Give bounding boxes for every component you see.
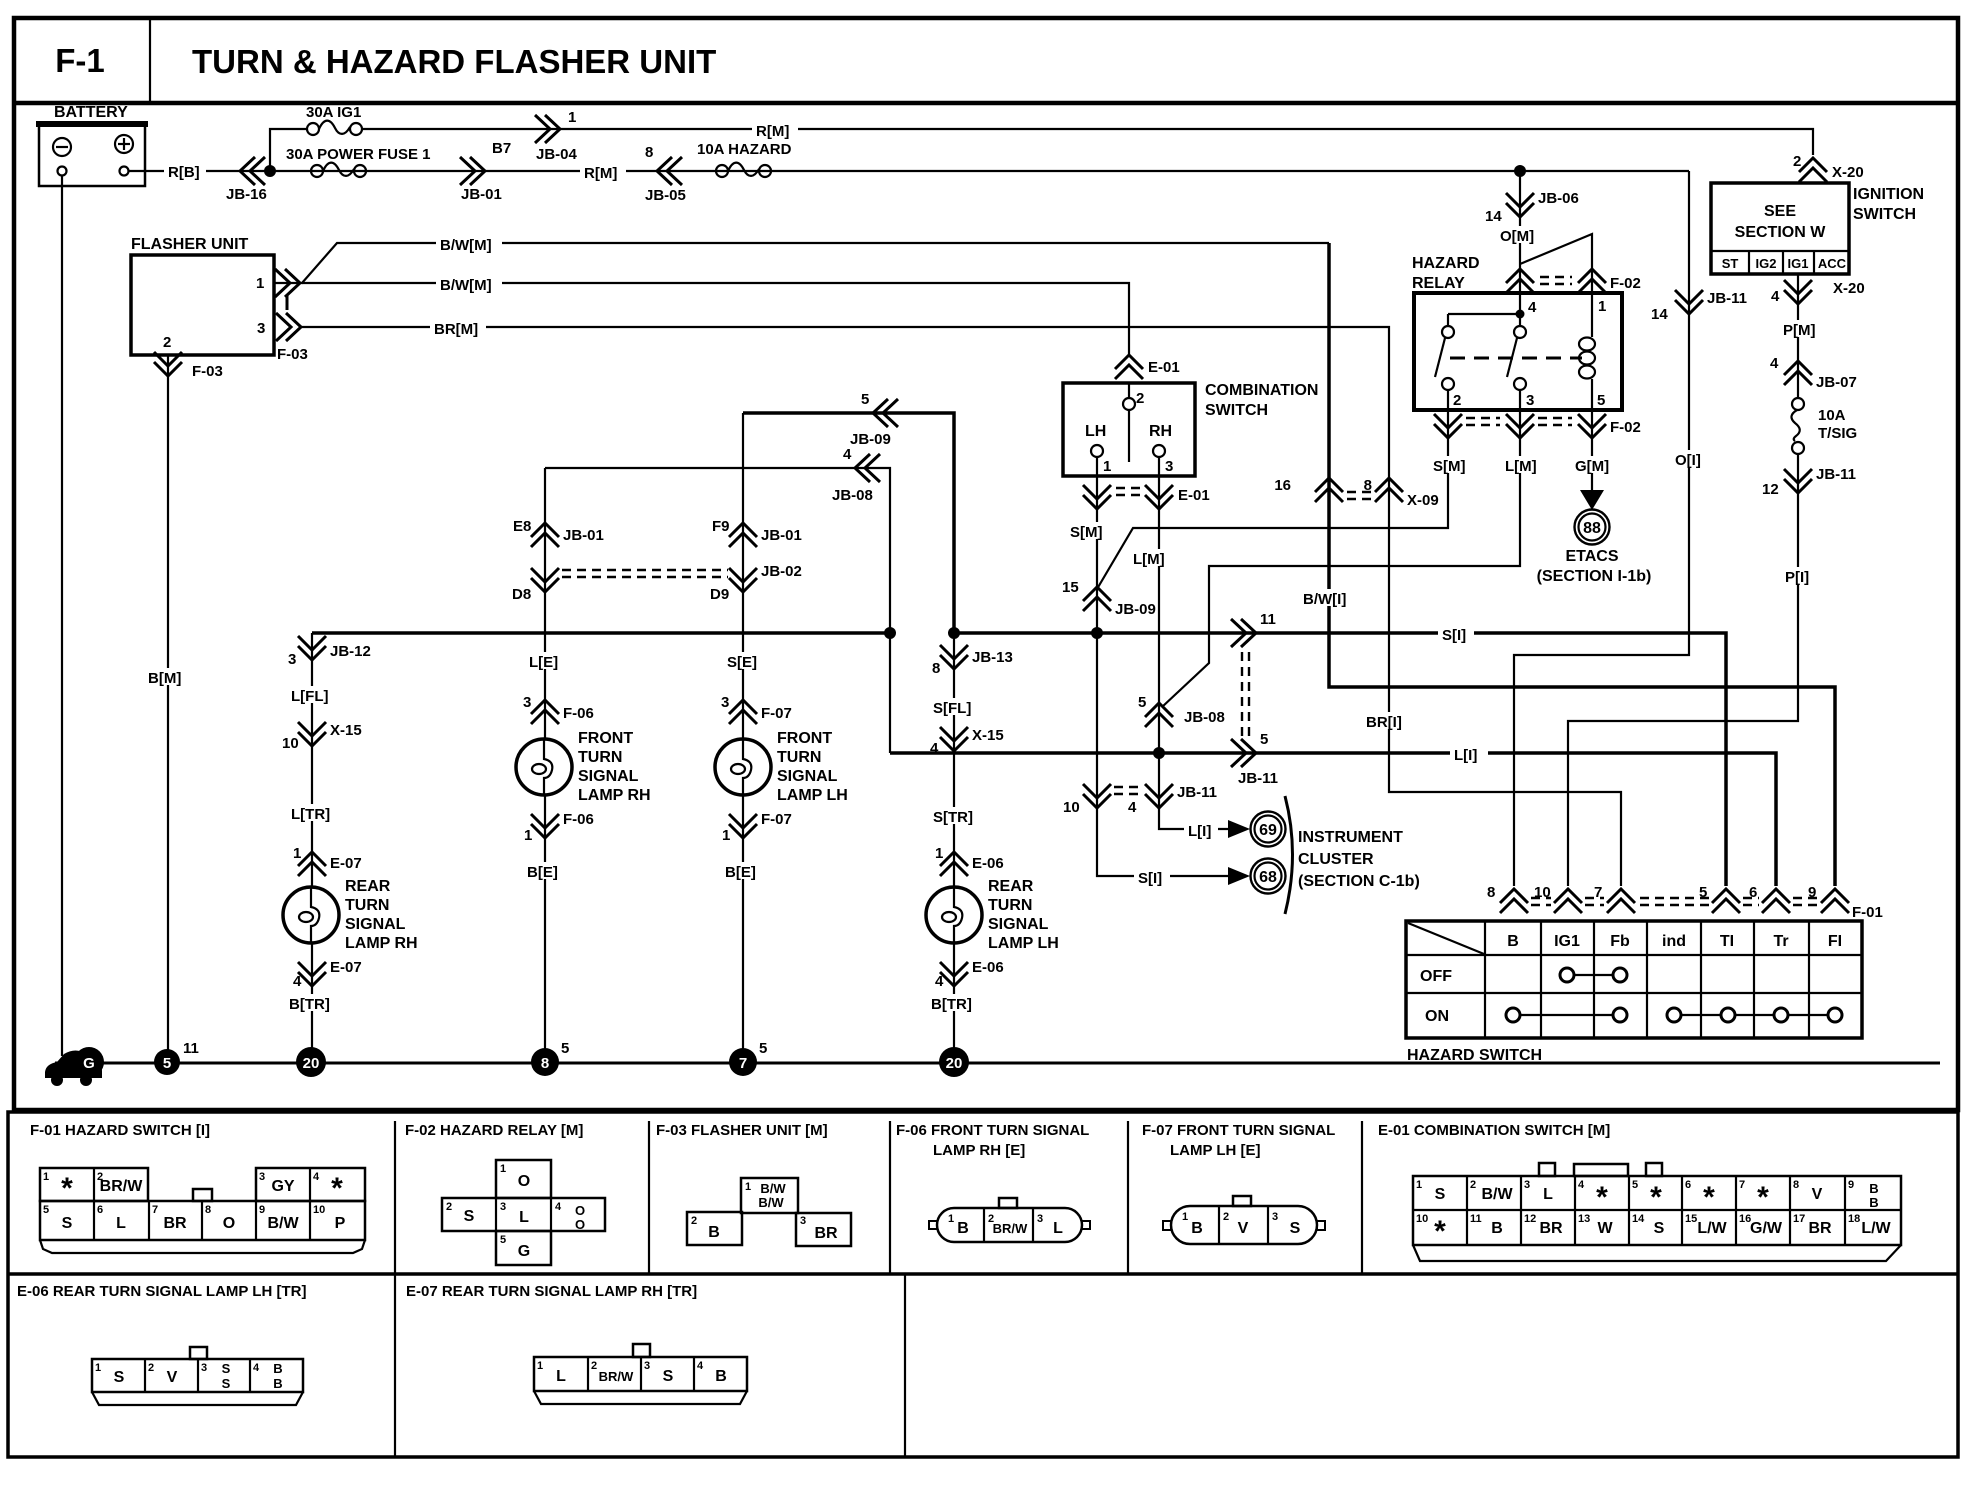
svg-text:L[I]: L[I] bbox=[1454, 747, 1477, 764]
label L[I] on L line bbox=[1450, 745, 1488, 764]
svg-text:S[I]: S[I] bbox=[1442, 627, 1466, 644]
connector F-01 pin 8 (up arrow) bbox=[1487, 884, 1528, 913]
connector JB-02 pin D9 (down arrow) bbox=[710, 563, 802, 603]
svg-text:69: 69 bbox=[1259, 822, 1277, 839]
svg-text:BATTERY: BATTERY bbox=[54, 104, 128, 121]
svg-text:B/W[M]: B/W[M] bbox=[440, 237, 492, 254]
svg-text:6: 6 bbox=[1685, 1179, 1691, 1191]
label B/W[M] upper bbox=[436, 235, 502, 254]
svg-text:F-02: F-02 bbox=[1610, 419, 1641, 436]
svg-text:E-07 REAR TURN SIGNAL LAMP RH: E-07 REAR TURN SIGNAL LAMP RH [TR] bbox=[406, 1283, 697, 1300]
svg-text:B/W: B/W bbox=[758, 1195, 784, 1210]
wire O[M] drop to relay pin 4 bbox=[1519, 171, 1521, 293]
svg-text:O: O bbox=[518, 1173, 530, 1190]
svg-text:*: * bbox=[1703, 1181, 1715, 1214]
node O[M] junction on power line bbox=[1514, 165, 1526, 177]
svg-text:10A HAZARD: 10A HAZARD bbox=[697, 141, 792, 158]
wire dashes between F-02 top arrows bbox=[1540, 277, 1572, 284]
svg-text:TURN: TURN bbox=[988, 897, 1032, 914]
svg-text:11: 11 bbox=[1260, 611, 1276, 628]
svg-text:S: S bbox=[222, 1361, 231, 1376]
wire lower power line to hazard fuse and right bbox=[270, 170, 1689, 172]
svg-text:TURN & HAZARD FLASHER UNIT: TURN & HAZARD FLASHER UNIT bbox=[192, 43, 716, 80]
svg-text:B7: B7 bbox=[492, 140, 511, 157]
connector E-01 pin 2 (up arrow above combination switch) bbox=[1115, 355, 1180, 379]
svg-text:G[M]: G[M] bbox=[1575, 458, 1609, 475]
title TURN & HAZARD FLASHER UNIT bbox=[192, 43, 716, 80]
connector JB-13 pin 8 (down arrow) bbox=[932, 645, 1013, 677]
svg-text:JB-08: JB-08 bbox=[832, 487, 873, 504]
svg-text:(SECTION C-1b): (SECTION C-1b) bbox=[1298, 873, 1420, 890]
wire R[M] top line from fuse to ignition switch bbox=[362, 129, 1813, 155]
connector X-09 pin 16 (up arrow) bbox=[1274, 477, 1343, 502]
wire G[M] from relay pin 5 to ETACS bbox=[1591, 410, 1593, 494]
svg-text:F-03 FLASHER UNIT [M]: F-03 FLASHER UNIT [M] bbox=[656, 1122, 828, 1139]
connector JB-11 pin 14 (down arrow on O[I]) bbox=[1651, 290, 1747, 323]
svg-text:1: 1 bbox=[43, 1171, 49, 1183]
svg-text:4: 4 bbox=[1770, 355, 1779, 372]
label G[M] bbox=[1572, 456, 1620, 475]
svg-text:R[B]: R[B] bbox=[168, 164, 200, 181]
svg-text:1: 1 bbox=[95, 1362, 101, 1374]
fuse 10A HAZARD bbox=[697, 141, 792, 177]
svg-text:E-06: E-06 bbox=[972, 959, 1004, 976]
svg-text:E-01: E-01 bbox=[1178, 487, 1210, 504]
connector F-01 pin 5 (up arrow) bbox=[1699, 884, 1740, 913]
ground car icon bbox=[45, 1051, 102, 1087]
svg-text:5: 5 bbox=[861, 391, 869, 408]
connector F-03 pin 1 (right arrow at flasher) bbox=[275, 269, 300, 310]
svg-text:2: 2 bbox=[1223, 1211, 1229, 1223]
svg-text:8: 8 bbox=[1487, 884, 1495, 901]
svg-text:4: 4 bbox=[843, 446, 852, 463]
svg-text:SIGNAL: SIGNAL bbox=[578, 768, 639, 785]
svg-text:S[E]: S[E] bbox=[727, 654, 757, 671]
svg-text:5: 5 bbox=[1260, 731, 1268, 748]
connector JB-02 pin D8 (down arrow) bbox=[512, 568, 559, 603]
lamp front turn signal LH (bulb) bbox=[715, 730, 848, 804]
svg-text:B: B bbox=[715, 1368, 727, 1385]
connector F-06 pin 1 (down arrow) bbox=[524, 811, 594, 844]
wire ground bus bbox=[55, 1062, 1940, 1065]
label L[E] bbox=[526, 652, 566, 671]
svg-text:ind: ind bbox=[1662, 933, 1686, 950]
svg-text:1: 1 bbox=[722, 827, 730, 844]
svg-text:R[M]: R[M] bbox=[584, 165, 617, 182]
svg-text:L[I]: L[I] bbox=[1188, 823, 1211, 840]
connector JB-01 pin E8 (up arrow) bbox=[513, 518, 604, 547]
svg-text:LAMP RH [E]: LAMP RH [E] bbox=[933, 1142, 1025, 1159]
svg-text:L: L bbox=[519, 1209, 529, 1226]
lamp front turn signal RH (bulb) bbox=[516, 730, 651, 804]
connector JB-08 pin 4 (left arrow) bbox=[832, 446, 880, 504]
connector F-02 pin 4 (up arrow above relay) bbox=[1506, 269, 1534, 293]
svg-text:*: * bbox=[61, 1172, 73, 1205]
ground node 8 pin 5 bbox=[531, 1040, 569, 1076]
connector JB-11 pin 12 (down arrow) bbox=[1762, 466, 1856, 498]
svg-text:JB-11: JB-11 bbox=[1177, 784, 1217, 801]
svg-text:S: S bbox=[62, 1215, 73, 1232]
label B[E] left bbox=[524, 862, 566, 881]
svg-text:JB-01: JB-01 bbox=[563, 527, 604, 544]
svg-text:10: 10 bbox=[1416, 1213, 1428, 1225]
svg-text:4: 4 bbox=[1771, 288, 1780, 305]
connector JB-05 pin 8 (left arrow) bbox=[645, 144, 686, 204]
svg-text:2: 2 bbox=[591, 1360, 597, 1372]
svg-text:T/SIG: T/SIG bbox=[1818, 425, 1857, 442]
svg-text:Fb: Fb bbox=[1610, 933, 1630, 950]
svg-text:V: V bbox=[1812, 1186, 1823, 1203]
svg-text:1: 1 bbox=[1416, 1179, 1422, 1191]
svg-text:F-06: F-06 bbox=[563, 811, 594, 828]
svg-text:BR: BR bbox=[163, 1215, 187, 1232]
label O[M] bbox=[1497, 226, 1544, 245]
wire JB-09 S line (S[E] top run) bbox=[743, 413, 954, 633]
connector F-07 drawing bbox=[1163, 1196, 1325, 1244]
svg-text:LH: LH bbox=[1085, 423, 1106, 440]
connector JB-08 pin 5 (diagonal arrow on L[M] wire) bbox=[1138, 694, 1225, 727]
connector JB-11 pin 4 (down arrow on L[M] wire) bbox=[1128, 784, 1217, 816]
svg-text:GY: GY bbox=[271, 1178, 294, 1195]
connector E-06 drawing bbox=[92, 1347, 303, 1405]
connector JB-07 pin 4 (up arrow) bbox=[1770, 355, 1857, 391]
svg-text:S[M]: S[M] bbox=[1433, 458, 1466, 475]
svg-text:1: 1 bbox=[745, 1181, 751, 1193]
svg-text:4: 4 bbox=[1578, 1179, 1585, 1191]
label BR[M] bbox=[430, 319, 486, 338]
connector F-06 pin 3 (up arrow) bbox=[523, 694, 594, 724]
svg-text:1: 1 bbox=[1103, 458, 1111, 475]
svg-text:F-01: F-01 bbox=[1852, 904, 1883, 921]
label O[I] bbox=[1672, 450, 1708, 469]
svg-text:BR[M]: BR[M] bbox=[434, 321, 478, 338]
svg-text:LAMP LH [E]: LAMP LH [E] bbox=[1170, 1142, 1261, 1159]
svg-text:JB-11: JB-11 bbox=[1238, 770, 1278, 787]
connector F-03 pin 3 (right arrow at flasher) bbox=[276, 313, 308, 363]
svg-text:REAR: REAR bbox=[988, 878, 1034, 895]
connector F-03 drawing bbox=[687, 1178, 851, 1246]
svg-text:BR: BR bbox=[1539, 1220, 1563, 1237]
svg-text:L: L bbox=[1053, 1220, 1063, 1237]
svg-text:Tr: Tr bbox=[1773, 933, 1788, 950]
svg-text:E8: E8 bbox=[513, 518, 531, 535]
connector JB-11 pin 11 (right arrow on S line) bbox=[1231, 611, 1276, 647]
hazard switch label bbox=[1407, 1047, 1542, 1064]
wire B/W[I] drop and run to hazard switch pin 9 bbox=[1329, 243, 1835, 886]
svg-text:E-01 COMBINATION SWITCH [M]: E-01 COMBINATION SWITCH [M] bbox=[1378, 1122, 1610, 1139]
svg-text:20: 20 bbox=[303, 1055, 320, 1072]
svg-text:S[M]: S[M] bbox=[1070, 524, 1103, 541]
svg-text:V: V bbox=[1238, 1220, 1249, 1237]
svg-text:D9: D9 bbox=[710, 586, 729, 603]
svg-text:FRONT: FRONT bbox=[578, 730, 633, 747]
connector JB-12 pin 3 (down arrow) bbox=[288, 636, 371, 668]
svg-text:X-20: X-20 bbox=[1833, 280, 1865, 297]
svg-text:BR: BR bbox=[814, 1225, 838, 1242]
svg-text:10: 10 bbox=[1063, 799, 1080, 816]
svg-text:B: B bbox=[1869, 1181, 1878, 1196]
instrument cluster bracket and label bbox=[1285, 796, 1420, 914]
wire S horizontal main run bbox=[954, 633, 1726, 886]
svg-text:ACC: ACC bbox=[1818, 256, 1847, 271]
svg-text:2: 2 bbox=[163, 334, 171, 351]
connector F-07 pin 3 (up arrow) bbox=[721, 694, 792, 724]
ground node G bbox=[74, 1047, 104, 1077]
svg-text:13: 13 bbox=[1578, 1213, 1590, 1225]
svg-text:7: 7 bbox=[1739, 1179, 1745, 1191]
svg-text:SWITCH: SWITCH bbox=[1205, 402, 1268, 419]
label B[TR] right bbox=[928, 994, 979, 1013]
fuse 10A T/SIG (vertical) bbox=[1791, 398, 1857, 454]
connector F-01 pin 6 (up arrow) bbox=[1749, 884, 1790, 913]
svg-text:15: 15 bbox=[1062, 579, 1079, 596]
wire O[I] from power line down to hazard switch pin 8 bbox=[1514, 171, 1689, 886]
svg-text:RELAY: RELAY bbox=[1412, 275, 1465, 292]
off-page arrowhead to ETACS bbox=[1580, 490, 1604, 510]
label R[M] lower bbox=[580, 163, 626, 182]
connector F-02 pin 1 (up arrow above relay) bbox=[1578, 269, 1641, 293]
wire L[E] front lamp RH chain bbox=[544, 468, 546, 1050]
svg-text:*: * bbox=[331, 1172, 343, 1205]
svg-text:2: 2 bbox=[1470, 1179, 1476, 1191]
combination switch box bbox=[1063, 382, 1318, 476]
svg-text:HAZARD: HAZARD bbox=[1412, 255, 1480, 272]
svg-text:3: 3 bbox=[523, 694, 531, 711]
svg-text:B: B bbox=[273, 1361, 282, 1376]
ignition switch box bbox=[1711, 183, 1924, 274]
connector JB-09 pin 5 (left arrow) bbox=[850, 391, 898, 448]
wire dashes between F-01 arrows bbox=[1531, 898, 1818, 905]
wire diagonal branch to relay pin 1 bbox=[1520, 234, 1592, 293]
svg-text:X-15: X-15 bbox=[330, 722, 362, 739]
wire B[M] flasher pin 2 to ground node 5 bbox=[167, 355, 169, 1050]
svg-text:1: 1 bbox=[524, 827, 532, 844]
svg-text:6: 6 bbox=[97, 1204, 103, 1216]
svg-text:FI: FI bbox=[1828, 933, 1842, 950]
svg-text:16: 16 bbox=[1274, 477, 1291, 494]
title block F-1 bbox=[55, 42, 105, 79]
connector E-07 pin 1 (up arrow) bbox=[293, 845, 362, 876]
wire P[I] continues down to hazard switch pin 10 bbox=[1568, 454, 1798, 886]
svg-text:SIGNAL: SIGNAL bbox=[988, 916, 1049, 933]
svg-text:L: L bbox=[1543, 1186, 1553, 1203]
svg-text:P: P bbox=[335, 1215, 346, 1232]
svg-text:X-20: X-20 bbox=[1832, 164, 1864, 181]
svg-text:1: 1 bbox=[293, 845, 301, 862]
svg-text:TURN: TURN bbox=[578, 749, 622, 766]
wire L[M] from relay pin 3 to JB-08 diagonal bbox=[1162, 410, 1520, 707]
svg-text:JB-07: JB-07 bbox=[1816, 374, 1857, 391]
svg-text:L: L bbox=[556, 1368, 566, 1385]
node junction L line at x1159 bbox=[1153, 747, 1165, 759]
svg-text:JB-05: JB-05 bbox=[645, 187, 686, 204]
svg-text:88: 88 bbox=[1583, 520, 1601, 537]
svg-text:B: B bbox=[957, 1220, 969, 1237]
svg-text:20: 20 bbox=[946, 1055, 963, 1072]
connector F-02 pin 2 (down arrow below relay) bbox=[1434, 414, 1462, 438]
connector F-07 pin 1 (down arrow) bbox=[722, 811, 792, 844]
svg-text:5: 5 bbox=[1597, 392, 1605, 409]
svg-text:B[E]: B[E] bbox=[527, 864, 558, 881]
ground node 5 pin 11 bbox=[154, 1040, 199, 1075]
svg-text:1: 1 bbox=[537, 1360, 543, 1372]
svg-text:8: 8 bbox=[645, 144, 653, 161]
svg-text:G: G bbox=[518, 1243, 530, 1260]
svg-text:3: 3 bbox=[1272, 1211, 1278, 1223]
svg-text:3: 3 bbox=[721, 694, 729, 711]
svg-text:5: 5 bbox=[759, 1040, 767, 1057]
lamp rear turn signal RH (bulb) bbox=[283, 878, 418, 952]
svg-text:SIGNAL: SIGNAL bbox=[777, 768, 838, 785]
label S[M] combination bbox=[1067, 522, 1115, 541]
svg-text:JB-06: JB-06 bbox=[1538, 190, 1579, 207]
relay internal contacts and coil bbox=[1435, 293, 1595, 410]
hazard relay label bbox=[1412, 255, 1480, 292]
svg-text:7: 7 bbox=[739, 1055, 747, 1072]
connector E-06 pin 4 (down arrow) bbox=[935, 959, 1004, 990]
svg-text:G/W: G/W bbox=[1750, 1220, 1783, 1237]
svg-text:IGNITION: IGNITION bbox=[1853, 186, 1924, 203]
wire dashes between F-02 bottom arrows bbox=[1466, 418, 1572, 425]
label L[M] combination bbox=[1130, 549, 1176, 568]
svg-text:E-07: E-07 bbox=[330, 855, 362, 872]
label R[M] top bbox=[752, 121, 798, 140]
connector JB-04 pin 1 (right arrow) bbox=[535, 109, 578, 163]
wire BR[I] drop and run to hazard switch pin 7 bbox=[1389, 476, 1621, 886]
svg-text:17: 17 bbox=[1793, 1213, 1805, 1225]
node junction S line at x1097 bbox=[1091, 627, 1103, 639]
connector JB-09 pin 15 (up arrow on S[M] wire) bbox=[1062, 579, 1156, 618]
flasher unit box bbox=[131, 236, 274, 355]
svg-text:3: 3 bbox=[257, 320, 265, 337]
connector X-20 pin 2 (up arrow above ignition switch) bbox=[1793, 153, 1864, 182]
svg-text:SIGNAL: SIGNAL bbox=[345, 916, 406, 933]
svg-text:X-15: X-15 bbox=[972, 727, 1004, 744]
label BR[I] bbox=[1363, 712, 1413, 731]
label B/W[I] bbox=[1300, 589, 1358, 608]
svg-text:SECTION W: SECTION W bbox=[1735, 224, 1827, 241]
connector F-01 pin 10 (up arrow) bbox=[1534, 884, 1582, 913]
fuse 30A POWER FUSE 1 bbox=[286, 146, 430, 177]
svg-text:4: 4 bbox=[253, 1362, 260, 1374]
wire P[M] from ignition IG1 down through fuse bbox=[1797, 274, 1799, 398]
svg-text:L[TR]: L[TR] bbox=[291, 806, 330, 823]
svg-text:11: 11 bbox=[1470, 1213, 1482, 1225]
svg-text:JB-08: JB-08 bbox=[1184, 709, 1225, 726]
svg-text:4: 4 bbox=[293, 973, 302, 990]
svg-text:1: 1 bbox=[568, 109, 576, 126]
svg-text:ETACS: ETACS bbox=[1565, 548, 1618, 565]
svg-text:3: 3 bbox=[259, 1171, 265, 1183]
svg-text:10: 10 bbox=[313, 1204, 325, 1216]
svg-text:B: B bbox=[1507, 933, 1519, 950]
lamp rear turn signal LH (bulb) bbox=[926, 878, 1059, 952]
instrument cluster arrow 68 bbox=[1228, 859, 1286, 894]
svg-text:3: 3 bbox=[800, 1215, 806, 1227]
svg-text:1: 1 bbox=[500, 1163, 506, 1175]
hazard switch ON row contacts bbox=[1506, 1008, 1842, 1022]
label S[FL] bbox=[930, 698, 978, 717]
svg-text:FRONT: FRONT bbox=[777, 730, 832, 747]
svg-text:3: 3 bbox=[1524, 1179, 1530, 1191]
svg-text:5: 5 bbox=[1632, 1179, 1638, 1191]
svg-text:E-06: E-06 bbox=[972, 855, 1004, 872]
svg-text:V: V bbox=[167, 1369, 178, 1386]
svg-text:1: 1 bbox=[935, 845, 943, 862]
svg-text:TI: TI bbox=[1720, 933, 1734, 950]
connector JB-01 pin F9 (up arrow) bbox=[712, 518, 802, 547]
svg-text:5: 5 bbox=[561, 1040, 569, 1057]
svg-text:4: 4 bbox=[1128, 799, 1137, 816]
wire battery minus B down to ground bbox=[61, 176, 63, 1056]
svg-text:S: S bbox=[1435, 1186, 1446, 1203]
svg-text:F-06: F-06 bbox=[563, 705, 594, 722]
svg-text:F-03: F-03 bbox=[192, 363, 223, 380]
svg-text:JB-11: JB-11 bbox=[1707, 290, 1747, 307]
svg-text:B: B bbox=[1191, 1220, 1203, 1237]
svg-text:*: * bbox=[1650, 1181, 1662, 1214]
label B[TR] left bbox=[286, 994, 337, 1013]
svg-text:3: 3 bbox=[201, 1362, 207, 1374]
wire JB-08 L line (L[E] top run) bbox=[545, 468, 890, 753]
svg-text:COMBINATION: COMBINATION bbox=[1205, 382, 1318, 399]
svg-text:ST: ST bbox=[1722, 256, 1739, 271]
svg-text:F-02 HAZARD RELAY [M]: F-02 HAZARD RELAY [M] bbox=[405, 1122, 583, 1139]
svg-text:IG1: IG1 bbox=[1554, 933, 1580, 950]
label P[I] bbox=[1782, 567, 1816, 586]
connector E-01 pin 1 (down arrow below box) bbox=[1083, 485, 1111, 509]
label P[M] bbox=[1780, 320, 1824, 339]
svg-text:L/W: L/W bbox=[1697, 1220, 1727, 1237]
svg-text:F-07 FRONT TURN SIGNAL: F-07 FRONT TURN SIGNAL bbox=[1142, 1122, 1335, 1139]
svg-text:S: S bbox=[222, 1376, 231, 1391]
svg-text:E-01: E-01 bbox=[1148, 359, 1180, 376]
wire battery plus R(B) to junction bbox=[129, 170, 270, 172]
label L[FL] bbox=[288, 686, 335, 705]
ground node 7 pin 5 bbox=[729, 1040, 767, 1076]
connector E-07 drawing bbox=[534, 1344, 747, 1404]
svg-text:TURN: TURN bbox=[777, 749, 821, 766]
svg-text:P[I]: P[I] bbox=[1785, 569, 1809, 586]
table titles row 1 bbox=[30, 1122, 1610, 1159]
svg-text:JB-02: JB-02 bbox=[761, 563, 802, 580]
wire junction-block dashed link D8-D9 bbox=[562, 570, 728, 577]
svg-text:B/W: B/W bbox=[267, 1215, 299, 1232]
svg-text:JB-01: JB-01 bbox=[761, 527, 802, 544]
svg-text:14: 14 bbox=[1632, 1213, 1645, 1225]
svg-text:L/W: L/W bbox=[1861, 1220, 1891, 1237]
svg-text:*: * bbox=[1596, 1181, 1608, 1214]
svg-text:B[TR]: B[TR] bbox=[289, 996, 330, 1013]
instrument cluster arrow 69 bbox=[1228, 812, 1286, 847]
svg-text:RH: RH bbox=[1149, 423, 1172, 440]
svg-text:SWITCH: SWITCH bbox=[1853, 206, 1916, 223]
svg-text:9: 9 bbox=[259, 1204, 265, 1216]
svg-text:8: 8 bbox=[205, 1204, 211, 1216]
svg-text:4: 4 bbox=[555, 1201, 562, 1213]
svg-text:F-1: F-1 bbox=[55, 42, 105, 79]
svg-text:2: 2 bbox=[1793, 153, 1801, 170]
svg-text:L[M]: L[M] bbox=[1505, 458, 1537, 475]
svg-text:JB-16: JB-16 bbox=[226, 186, 267, 203]
svg-text:12: 12 bbox=[1762, 481, 1779, 498]
label S[M] relay bbox=[1430, 456, 1478, 475]
label R[B] bbox=[164, 162, 206, 181]
wire S[M] from combination switch pin 1 down to instrument cluster 68 bbox=[1097, 457, 1228, 876]
svg-text:E-06 REAR TURN SIGNAL LAMP LH: E-06 REAR TURN SIGNAL LAMP LH [TR] bbox=[17, 1283, 306, 1300]
connector JB-11 pin 5 (right arrow on L line) bbox=[1231, 731, 1278, 787]
svg-text:B: B bbox=[708, 1224, 720, 1241]
